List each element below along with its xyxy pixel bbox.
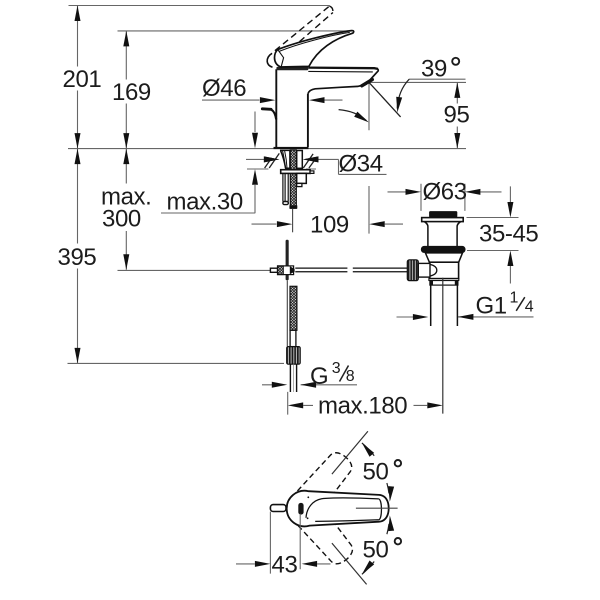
hose end level line <box>68 362 285 364</box>
counter hatching <box>265 153 316 168</box>
svg-text:G1: G1 <box>476 293 507 320</box>
pull-rod knob <box>262 107 271 110</box>
waste body taper <box>425 253 462 262</box>
waste tailpipe <box>431 285 458 326</box>
svg-text:3: 3 <box>332 360 341 377</box>
ref line (169 datum) <box>118 30 354 32</box>
waste rim <box>422 218 464 222</box>
svg-text:395: 395 <box>58 244 97 271</box>
top view: dashed swung levers <box>297 447 358 569</box>
top view: lever slot <box>298 503 303 515</box>
50° lower arc <box>362 562 374 575</box>
counter plane line <box>68 148 466 150</box>
svg-text:4: 4 <box>525 299 534 316</box>
lever front facet outline <box>267 53 272 67</box>
39° flow diagonal <box>369 82 401 117</box>
faucet base bottom edge <box>274 147 309 149</box>
dim G1 1/4 <box>397 290 534 321</box>
rod level line <box>118 269 271 271</box>
dim 169 <box>112 31 151 149</box>
dim 201 <box>63 6 102 149</box>
escutcheon band <box>276 67 308 70</box>
faucet body left edge <box>275 69 277 147</box>
svg-text:201: 201 <box>63 66 102 93</box>
spout tip face <box>363 69 378 85</box>
svg-text:1: 1 <box>510 290 519 307</box>
dim 35-45 <box>467 186 539 283</box>
top view: dots <box>307 496 309 498</box>
washer <box>281 170 310 174</box>
rod end <box>270 268 277 272</box>
svg-text:39: 39 <box>421 56 447 83</box>
waste ring <box>429 279 459 281</box>
aerator <box>362 80 373 86</box>
hose centerline <box>292 209 294 233</box>
dim max.30 <box>161 112 258 216</box>
spout underside <box>308 85 364 94</box>
svg-text:8: 8 <box>346 368 355 385</box>
horizontal waste rod <box>295 268 407 272</box>
dim 95 <box>369 82 470 148</box>
39° lower arc <box>339 110 367 121</box>
waste neck <box>424 222 428 246</box>
pull rod tubes <box>283 173 288 203</box>
svg-text:max.30: max.30 <box>167 189 243 216</box>
rod coupling <box>278 266 294 275</box>
dim 109 <box>252 212 404 239</box>
svg-text:Ø46: Ø46 <box>202 75 246 102</box>
trim cone <box>281 150 290 168</box>
svg-text:50: 50 <box>363 536 389 563</box>
svg-text:Ø34: Ø34 <box>339 151 383 178</box>
dim Ø34 <box>246 151 387 178</box>
G3/8 thread <box>290 364 296 392</box>
lever raised (dashed) <box>275 6 333 66</box>
waste knurled knob <box>407 260 418 281</box>
dim max.300 <box>101 149 151 270</box>
mounting nut <box>297 173 307 183</box>
svg-text:max.180: max.180 <box>318 393 407 420</box>
faucet body fill <box>276 67 308 149</box>
waste centerline <box>442 278 444 414</box>
top view: centerline through lever end <box>356 507 398 509</box>
ref line top (201 datum) <box>69 5 330 7</box>
svg-text:43: 43 <box>272 552 298 579</box>
threaded shank <box>290 150 296 208</box>
waste cap <box>429 211 457 218</box>
spout top surface <box>308 68 378 69</box>
pull rod lower <box>286 240 289 280</box>
spout outlet extension line <box>368 82 370 233</box>
top view: lever inner lines <box>306 498 379 518</box>
svg-text:35-45: 35-45 <box>479 221 538 248</box>
dim Ø63 <box>388 179 502 211</box>
top view: spout nub <box>270 505 286 512</box>
trim right tube <box>297 151 303 169</box>
dim G3/8 <box>262 360 357 390</box>
dim 395 <box>58 149 97 364</box>
waste rod port <box>418 263 430 277</box>
50° rays <box>332 431 368 474</box>
waste slotted nut <box>430 281 458 286</box>
waste body <box>429 262 458 278</box>
svg-text:169: 169 <box>112 79 151 106</box>
svg-text:50: 50 <box>363 458 389 485</box>
counter underside line <box>247 168 316 170</box>
top view: body+lever silhouette <box>287 491 389 527</box>
dim Ø46 <box>202 75 343 103</box>
svg-text:109: 109 <box>310 212 349 239</box>
svg-text:G: G <box>310 363 328 390</box>
svg-text:Ø63: Ø63 <box>423 179 467 206</box>
dim 43 <box>236 512 331 579</box>
dim max.180 <box>288 392 443 420</box>
50° upper arc <box>362 443 374 456</box>
o-ring <box>421 246 466 253</box>
svg-text:95: 95 <box>444 102 470 129</box>
label 39° <box>409 56 466 83</box>
Ø34 arrowheads over hatching <box>264 156 280 162</box>
39° upper arc <box>397 79 409 108</box>
lever handle <box>275 31 354 67</box>
svg-text:300: 300 <box>102 206 141 233</box>
faucet body right edge <box>307 94 309 147</box>
braided hose <box>290 286 297 330</box>
hose nut (knurled) <box>287 347 301 365</box>
